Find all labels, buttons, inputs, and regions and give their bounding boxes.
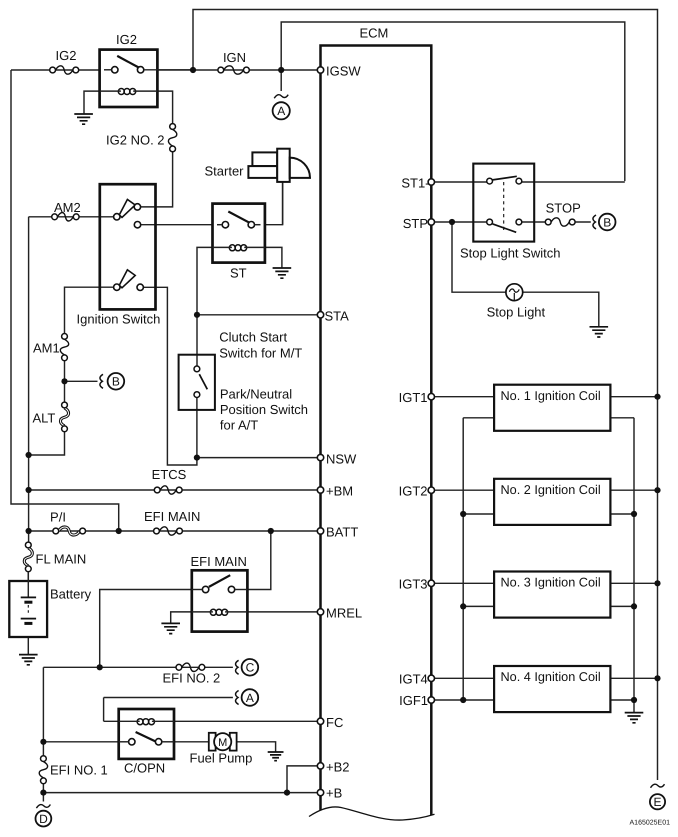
svg-text:Battery: Battery [50,587,92,602]
svg-text:Position Switch: Position Switch [220,402,308,417]
svg-text:+BM: +BM [326,484,353,499]
svg-text:IGF1: IGF1 [399,693,428,708]
svg-text:Starter: Starter [205,164,245,179]
svg-text:Stop Light: Stop Light [487,305,546,320]
svg-text:IG2: IG2 [56,48,77,63]
svg-text:Park/Neutral: Park/Neutral [220,387,292,402]
svg-text:NSW: NSW [326,451,357,466]
svg-text:Ignition Switch: Ignition Switch [77,312,161,327]
svg-text:IGT1: IGT1 [399,390,428,405]
svg-text:EFI NO. 1: EFI NO. 1 [50,763,108,778]
svg-text:IGN: IGN [223,50,246,65]
svg-text:IGT4: IGT4 [399,672,428,687]
svg-text:Clutch Start: Clutch Start [219,330,287,345]
svg-text:IGT3: IGT3 [399,577,428,592]
svg-text:BATT: BATT [326,525,358,540]
svg-text:+B: +B [326,786,342,801]
svg-text:E: E [653,795,661,809]
svg-text:IG2 NO. 2: IG2 NO. 2 [106,133,165,148]
svg-text:IGT2: IGT2 [399,484,428,499]
svg-text:STOP: STOP [546,201,581,216]
svg-text:A165025E01: A165025E01 [630,820,671,827]
svg-text:A: A [277,104,285,118]
svg-text:C: C [246,661,255,675]
svg-text:IGSW: IGSW [326,64,361,79]
svg-text:ETCS: ETCS [152,467,187,482]
svg-text:B: B [603,215,611,229]
svg-text:No. 2 Ignition Coil: No. 2 Ignition Coil [501,483,601,497]
svg-text:D: D [39,812,48,826]
svg-text:Switch for M/T: Switch for M/T [219,346,302,361]
svg-text:AM2: AM2 [54,200,81,215]
svg-text:ST1-: ST1- [401,176,429,191]
svg-text:EFI MAIN: EFI MAIN [144,509,200,524]
svg-text:STP: STP [403,216,428,231]
svg-text:for A/T: for A/T [220,418,258,433]
svg-text:EFI NO. 2: EFI NO. 2 [163,671,221,686]
svg-text:P/I: P/I [50,510,66,525]
svg-text:MREL: MREL [326,606,362,621]
svg-text:No. 3 Ignition Coil: No. 3 Ignition Coil [501,576,601,590]
svg-text:ALT: ALT [33,411,56,426]
svg-text:No. 1 Ignition Coil: No. 1 Ignition Coil [501,389,601,403]
svg-text:ST: ST [230,266,247,281]
svg-text:No. 4 Ignition Coil: No. 4 Ignition Coil [501,670,601,684]
svg-text:Stop Light Switch: Stop Light Switch [460,246,560,261]
svg-text:C/OPN: C/OPN [124,761,165,776]
svg-text:ECM: ECM [360,26,389,41]
svg-text:EFI MAIN: EFI MAIN [191,554,247,569]
svg-text:M: M [218,737,227,749]
svg-text:AM1: AM1 [33,341,60,356]
svg-text:STA: STA [325,308,350,323]
svg-text:B: B [112,375,120,389]
svg-text:A: A [246,691,254,705]
svg-text:FL MAIN: FL MAIN [36,552,87,567]
svg-text:+B2: +B2 [326,760,350,775]
svg-text:IG2: IG2 [116,32,137,47]
svg-text:FC: FC [326,715,343,730]
svg-text:Fuel Pump: Fuel Pump [190,751,253,766]
